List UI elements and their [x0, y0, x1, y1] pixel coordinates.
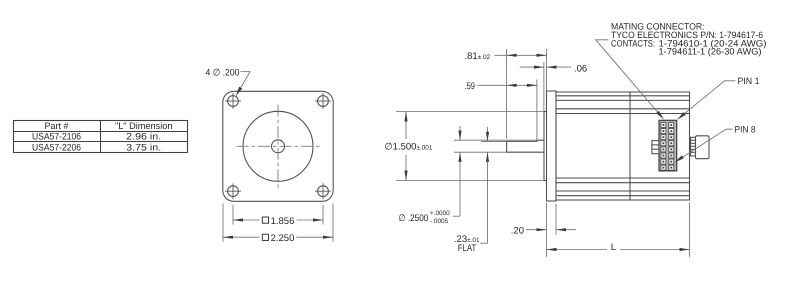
- svg-text:2.96 in.: 2.96 in.: [126, 132, 161, 143]
- svg-text:USA57-2206: USA57-2206: [32, 143, 81, 154]
- svg-text:3.75 in.: 3.75 in.: [126, 143, 161, 154]
- svg-text:1.856: 1.856: [271, 216, 295, 227]
- svg-text:4 ∅ .200: 4 ∅ .200: [206, 68, 240, 79]
- svg-text:2.250: 2.250: [271, 233, 295, 244]
- svg-text:.20: .20: [511, 226, 524, 237]
- svg-text:PIN 8: PIN 8: [735, 124, 756, 134]
- svg-text:FLAT: FLAT: [458, 243, 477, 254]
- svg-text:.06: .06: [574, 64, 587, 75]
- svg-text:∅ .2500: ∅ .2500: [398, 213, 428, 224]
- svg-text:.59: .59: [465, 81, 476, 92]
- svg-text:-.0005: -.0005: [430, 218, 449, 225]
- svg-text:1-794611-1 (26-30 AWG): 1-794611-1 (26-30 AWG): [659, 47, 762, 57]
- svg-text:"L" Dimension: "L" Dimension: [115, 121, 173, 132]
- svg-text:CONTACTS:: CONTACTS:: [611, 38, 655, 48]
- svg-text:USA57-2106: USA57-2106: [32, 132, 81, 143]
- svg-text:L: L: [611, 242, 616, 253]
- svg-text:+.0000: +.0000: [430, 210, 450, 217]
- svg-text:Part #: Part #: [45, 121, 70, 132]
- svg-text:PIN 1: PIN 1: [738, 76, 760, 86]
